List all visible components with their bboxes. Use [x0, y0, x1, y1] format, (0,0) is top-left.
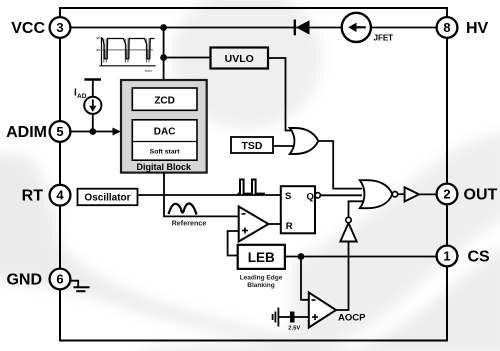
node VCC rail junction	[160, 24, 167, 31]
svg-text:VCC: VCC	[11, 20, 45, 37]
arrowhead into Digital Block	[113, 128, 121, 136]
svg-text:R: R	[286, 221, 293, 232]
svg-text:Q: Q	[307, 192, 314, 203]
svg-text:JFET: JFET	[374, 34, 394, 43]
wire buffer to OUT pin	[419, 193, 437, 195]
svg-text:6: 6	[56, 272, 63, 287]
battery 2.5V	[273, 308, 309, 332]
wire oscillator to latch S input	[138, 194, 281, 196]
PWM comparator	[239, 207, 269, 242]
svg-text:Leading Edge: Leading Edge	[240, 274, 283, 281]
svg-text:RT: RT	[22, 188, 44, 205]
svg-text:OUT: OUT	[464, 187, 498, 204]
svg-text:1: 1	[443, 249, 450, 264]
inverter U6	[340, 217, 356, 241]
svg-text:4: 4	[56, 188, 64, 203]
wire VCC junction down to Digital Block	[163, 28, 165, 81]
Oscillator block	[78, 189, 138, 206]
svg-text:ZCD: ZCD	[154, 95, 175, 106]
comparator AOCP	[309, 293, 366, 328]
svg-text:AD: AD	[77, 93, 87, 100]
UVLO block	[211, 48, 269, 69]
wire junction to AOCP minus input	[301, 257, 309, 300]
svg-text:UVLO: UVLO	[225, 53, 254, 65]
wire NOR to buffer	[398, 193, 405, 195]
NOR gate U4	[360, 180, 398, 208]
svg-text:ADIM: ADIM	[6, 124, 47, 141]
node ADIM junction	[89, 128, 96, 135]
wire VCC rail pin3 to pin8	[60, 27, 447, 29]
pin 3 VCC	[11, 17, 70, 38]
node CS junction	[298, 253, 305, 260]
pin 4 RT	[22, 185, 71, 206]
svg-text:S: S	[285, 191, 291, 202]
svg-text:Soft start: Soft start	[150, 149, 181, 156]
wire ADIM pin to Digital Block	[60, 131, 114, 133]
TSD block	[231, 137, 273, 153]
svg-text:time: time	[145, 69, 152, 73]
svg-text:5: 5	[56, 124, 63, 139]
wire OR gate to NOR gate	[318, 141, 362, 189]
svg-text:8: 8	[443, 20, 450, 35]
svg-text:GND: GND	[6, 272, 42, 289]
diode D1 on VCC rail	[295, 20, 310, 36]
svg-text:2.5V: 2.5V	[288, 326, 300, 332]
svg-text:AOCP: AOCP	[338, 313, 366, 324]
ground symbol	[70, 281, 89, 292]
reference sine symbol	[169, 203, 197, 214]
svg-text:3: 3	[56, 20, 63, 35]
pin 5 ADIM	[6, 121, 70, 142]
svg-text:DAC: DAC	[154, 127, 176, 138]
IC boundary box	[60, 8, 447, 341]
wire LEB to comparator plus input	[228, 231, 239, 256]
wire Digital Block to reference comparator	[164, 173, 239, 217]
wire TSD to OR gate	[273, 145, 293, 147]
OR gate U2 protection	[290, 128, 319, 154]
wire junction to UVLO	[164, 57, 211, 59]
svg-text:LEB: LEB	[248, 250, 275, 265]
svg-text:CS: CS	[468, 249, 491, 266]
Digital Block	[121, 80, 207, 173]
svg-text:HV: HV	[466, 20, 489, 37]
svg-text:TSD: TSD	[242, 140, 263, 152]
current source IAD	[74, 80, 101, 132]
svg-text:2: 2	[443, 187, 450, 202]
VCC waveform inset	[96, 37, 155, 73]
wire LEB to CS pin	[285, 256, 437, 258]
wire Q output to NOR gate	[320, 194, 362, 196]
svg-text:Blanking: Blanking	[247, 282, 274, 289]
wire inverter to NOR input	[349, 201, 364, 217]
svg-text:Reference: Reference	[172, 219, 207, 228]
pulse waveform symbol	[238, 180, 265, 194]
wire AOCP to inverter	[336, 242, 349, 311]
wire comparator to latch R input	[269, 223, 281, 225]
SR latch U3	[281, 186, 321, 233]
pin 1 CS	[437, 246, 490, 267]
node UVLO branch junction	[160, 54, 167, 61]
pin 2 OUT	[437, 184, 498, 205]
wire UVLO to OR gate	[268, 58, 292, 131]
buffer U5	[405, 187, 419, 201]
LEB block	[238, 245, 285, 289]
pin 8 HV	[437, 17, 489, 38]
pin 6 GND	[6, 269, 70, 290]
svg-text:Digital Block: Digital Block	[137, 162, 193, 172]
svg-text:Oscillator: Oscillator	[84, 192, 130, 203]
current source JFET	[342, 13, 393, 43]
